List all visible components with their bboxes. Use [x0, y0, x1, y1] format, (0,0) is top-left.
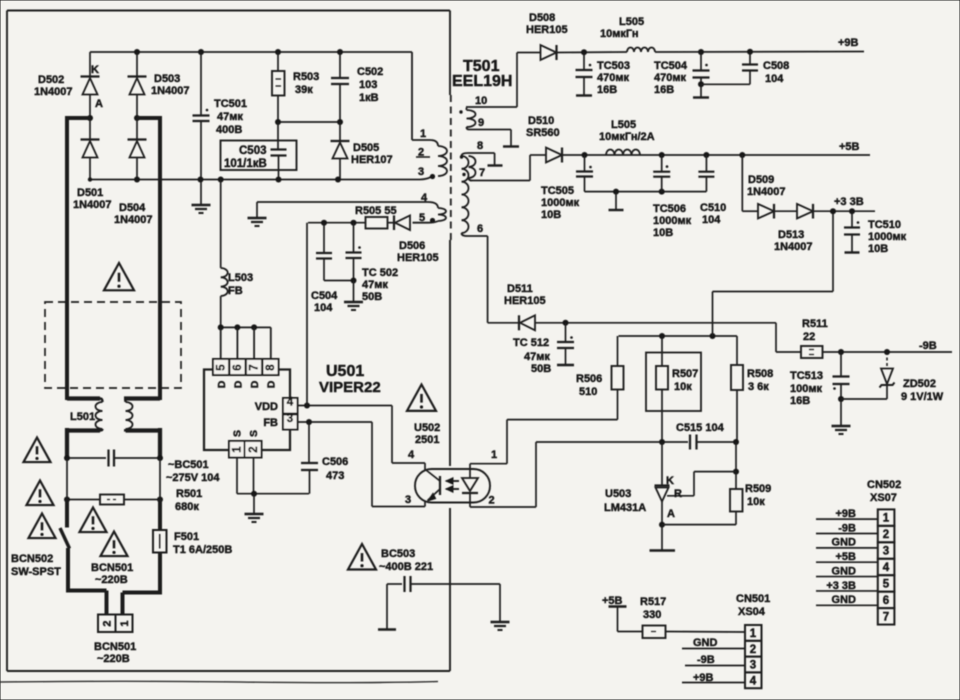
svg-text:BCN501: BCN501 — [91, 562, 133, 574]
svg-text:R: R — [674, 488, 682, 500]
svg-text:L503: L503 — [228, 272, 253, 284]
svg-text:1000мк: 1000мк — [541, 197, 580, 209]
svg-text:D511: D511 — [507, 283, 533, 295]
svg-text:GND: GND — [832, 594, 857, 606]
svg-text:10В: 10В — [541, 209, 561, 221]
svg-text:D502: D502 — [38, 74, 64, 86]
svg-text:TC 512: TC 512 — [513, 337, 549, 349]
svg-text:10В: 10В — [653, 227, 673, 239]
svg-text:10мкГн/2А: 10мкГн/2А — [599, 131, 655, 143]
svg-text:TC513: TC513 — [790, 370, 823, 382]
svg-text:L501: L501 — [70, 411, 95, 423]
svg-text:SW-SPST: SW-SPST — [11, 566, 61, 578]
svg-text:4: 4 — [883, 562, 890, 574]
svg-text:C502: C502 — [357, 66, 383, 78]
svg-text:103: 103 — [359, 79, 377, 91]
svg-text:400В: 400В — [216, 124, 242, 136]
svg-text:22: 22 — [803, 331, 815, 343]
svg-text:HER107: HER107 — [351, 154, 393, 166]
svg-text:S: S — [248, 430, 260, 437]
svg-text:C515 104: C515 104 — [676, 422, 725, 434]
svg-text:1N4007: 1N4007 — [114, 214, 153, 226]
svg-text:EEL19H: EEL19H — [452, 73, 512, 90]
svg-text:L505: L505 — [619, 16, 644, 28]
svg-text:47мк: 47мк — [362, 279, 388, 291]
svg-text:C506: C506 — [322, 456, 348, 468]
svg-text:7: 7 — [249, 364, 261, 370]
svg-text:39к: 39к — [295, 84, 313, 96]
svg-text:K: K — [666, 475, 674, 487]
svg-text:470мк: 470мк — [597, 72, 629, 84]
svg-text:U503: U503 — [605, 488, 631, 500]
svg-text:HER105: HER105 — [504, 295, 546, 307]
svg-text:S: S — [232, 430, 244, 437]
svg-text:D506: D506 — [399, 240, 425, 252]
svg-text:10к: 10к — [674, 381, 692, 393]
svg-text:D510: D510 — [528, 115, 554, 127]
svg-text:TC 502: TC 502 — [362, 267, 398, 279]
svg-text:D504: D504 — [119, 202, 146, 214]
svg-text:3: 3 — [883, 546, 889, 558]
svg-text:16В: 16В — [790, 395, 810, 407]
svg-text:4: 4 — [421, 192, 428, 204]
svg-text:TC506: TC506 — [653, 203, 686, 215]
svg-text:2: 2 — [102, 620, 114, 626]
svg-text:7: 7 — [883, 611, 889, 623]
svg-text:+9B: +9B — [693, 672, 714, 684]
svg-text:1: 1 — [420, 128, 426, 140]
svg-text:104: 104 — [765, 73, 784, 85]
svg-text:D501: D501 — [77, 187, 103, 199]
svg-text:-9B: -9B — [838, 522, 856, 534]
svg-text:D505: D505 — [353, 142, 379, 154]
svg-text:BCN501: BCN501 — [94, 641, 136, 653]
svg-text:HER105: HER105 — [397, 252, 439, 264]
svg-text:3: 3 — [418, 166, 424, 178]
svg-text:1000мк: 1000мк — [653, 215, 692, 227]
svg-text:2: 2 — [248, 446, 260, 452]
svg-text:SR560: SR560 — [526, 127, 560, 139]
svg-text:2501: 2501 — [415, 434, 439, 446]
svg-text:VDD: VDD — [255, 401, 278, 413]
svg-text:3: 3 — [750, 660, 756, 672]
svg-text:A: A — [667, 508, 675, 520]
svg-text:D508: D508 — [529, 12, 555, 24]
svg-text:10к: 10к — [747, 496, 765, 508]
svg-text:100мк: 100мк — [790, 383, 822, 395]
svg-text:FB: FB — [263, 417, 278, 429]
svg-text:+3 3B: +3 3B — [826, 580, 856, 592]
svg-text:-9B: -9B — [919, 340, 937, 352]
svg-text:TC503: TC503 — [597, 60, 630, 72]
svg-text:T1 6A/250B: T1 6A/250B — [173, 544, 232, 556]
svg-text:BCN502: BCN502 — [11, 553, 53, 565]
svg-text:GND: GND — [693, 637, 718, 649]
svg-text:510: 510 — [579, 386, 597, 398]
svg-text:3: 3 — [287, 413, 293, 425]
svg-text:-9B: -9B — [697, 654, 715, 666]
svg-text:330: 330 — [643, 609, 661, 621]
svg-text:F501: F501 — [174, 531, 199, 543]
svg-text:~275V 104: ~275V 104 — [166, 472, 220, 484]
svg-text:C510: C510 — [700, 202, 726, 214]
svg-text:~BC501: ~BC501 — [168, 459, 209, 471]
svg-text:470мк: 470мк — [654, 72, 686, 84]
svg-text:D513: D513 — [778, 229, 804, 241]
svg-text:50В: 50В — [531, 363, 551, 375]
svg-text:~220B: ~220B — [97, 653, 130, 665]
svg-text:CN502: CN502 — [867, 479, 901, 491]
svg-text:680к: 680к — [175, 501, 199, 513]
svg-text:104: 104 — [702, 214, 721, 226]
svg-text:104: 104 — [314, 302, 333, 314]
svg-text:6: 6 — [883, 595, 889, 607]
svg-text:+5B: +5B — [602, 595, 623, 607]
svg-text:1N4007: 1N4007 — [34, 86, 73, 98]
svg-text:U501: U501 — [326, 363, 364, 380]
svg-text:1: 1 — [119, 620, 131, 626]
svg-text:50В: 50В — [362, 291, 382, 303]
svg-text:8: 8 — [265, 364, 277, 371]
svg-text:473: 473 — [326, 470, 344, 482]
svg-text:D: D — [216, 380, 228, 388]
svg-text:~400B 221: ~400B 221 — [379, 561, 433, 573]
svg-text:5: 5 — [216, 364, 228, 371]
svg-text:TC504: TC504 — [654, 60, 688, 72]
svg-text:1N4007: 1N4007 — [151, 85, 190, 97]
svg-text:1000мк: 1000мк — [868, 231, 907, 243]
svg-text:+3 3B: +3 3B — [834, 196, 864, 208]
svg-text:VIPER22: VIPER22 — [319, 379, 381, 396]
svg-text:1N4007: 1N4007 — [747, 186, 786, 198]
svg-text:TC505: TC505 — [541, 185, 574, 197]
svg-text:FB: FB — [228, 285, 243, 297]
svg-text:GND: GND — [832, 565, 857, 577]
svg-text:+5B: +5B — [839, 141, 860, 153]
svg-text:C508: C508 — [763, 60, 789, 72]
svg-text:2: 2 — [489, 495, 495, 507]
svg-text:4: 4 — [408, 449, 415, 461]
svg-text:9: 9 — [478, 117, 484, 129]
svg-text:10мкГн: 10мкГн — [600, 28, 638, 40]
svg-text:7: 7 — [479, 167, 485, 179]
svg-text:R511: R511 — [802, 318, 828, 330]
svg-text:1N4007: 1N4007 — [73, 199, 112, 211]
svg-text:HER105: HER105 — [526, 24, 568, 36]
svg-text:A: A — [95, 98, 103, 110]
svg-text:L505: L505 — [611, 119, 636, 131]
svg-text:LM431A: LM431A — [604, 502, 646, 514]
svg-text:3: 3 — [405, 494, 411, 506]
svg-text:C504: C504 — [311, 290, 338, 302]
svg-text:BC503: BC503 — [381, 548, 415, 560]
svg-text:16В: 16В — [654, 84, 674, 96]
svg-text:2: 2 — [418, 147, 424, 159]
svg-text:R507: R507 — [672, 368, 698, 380]
svg-text:TC510: TC510 — [868, 219, 901, 231]
svg-text:~220B: ~220B — [95, 574, 128, 586]
svg-text:101/1кВ: 101/1кВ — [224, 158, 267, 170]
svg-text:1N4007: 1N4007 — [774, 241, 813, 253]
svg-text:9 1V/1W: 9 1V/1W — [901, 391, 944, 403]
svg-text:4: 4 — [750, 675, 757, 687]
svg-text:2: 2 — [883, 529, 889, 541]
svg-text:XS04: XS04 — [738, 606, 766, 618]
svg-text:16В: 16В — [597, 84, 617, 96]
svg-text:+9B: +9B — [836, 508, 857, 520]
svg-text:ZD502: ZD502 — [903, 378, 936, 390]
svg-text:R501: R501 — [176, 488, 202, 500]
svg-text:5: 5 — [883, 578, 890, 590]
svg-text:R509: R509 — [745, 483, 771, 495]
svg-text:3 6к: 3 6к — [748, 381, 769, 393]
svg-text:1: 1 — [750, 628, 757, 640]
svg-text:R517: R517 — [640, 596, 666, 608]
svg-text:8: 8 — [477, 140, 483, 152]
svg-text:TC501: TC501 — [214, 98, 247, 110]
svg-text:6: 6 — [477, 223, 483, 235]
svg-text:6: 6 — [232, 364, 244, 370]
svg-text:47мк: 47мк — [524, 351, 550, 363]
svg-text:+5B: +5B — [836, 551, 857, 563]
svg-text:47мк: 47мк — [217, 111, 243, 123]
svg-text:K: K — [91, 64, 99, 76]
svg-text:1: 1 — [232, 446, 244, 453]
svg-text:1: 1 — [883, 513, 890, 525]
svg-text:D: D — [249, 380, 261, 388]
svg-text:1кВ: 1кВ — [359, 92, 379, 104]
svg-text:R508: R508 — [747, 368, 773, 380]
svg-text:D509: D509 — [748, 174, 774, 186]
svg-text:C503: C503 — [239, 145, 267, 157]
svg-text:D: D — [233, 380, 245, 388]
svg-text:10В: 10В — [868, 243, 888, 255]
svg-text:R503: R503 — [293, 71, 319, 83]
svg-text:+9B: +9B — [838, 37, 859, 49]
svg-text:10: 10 — [475, 95, 487, 107]
svg-text:CN501: CN501 — [736, 593, 770, 605]
svg-text:2: 2 — [750, 644, 756, 656]
svg-text:R506: R506 — [576, 373, 602, 385]
svg-text:U502: U502 — [414, 422, 440, 434]
svg-text:D503: D503 — [154, 73, 180, 85]
svg-text:D: D — [266, 380, 278, 388]
svg-text:GND: GND — [832, 537, 857, 549]
svg-text:1: 1 — [491, 449, 497, 461]
svg-text:4: 4 — [287, 397, 294, 409]
svg-text:XS07: XS07 — [870, 492, 897, 504]
svg-text:R505 55: R505 55 — [355, 205, 397, 217]
